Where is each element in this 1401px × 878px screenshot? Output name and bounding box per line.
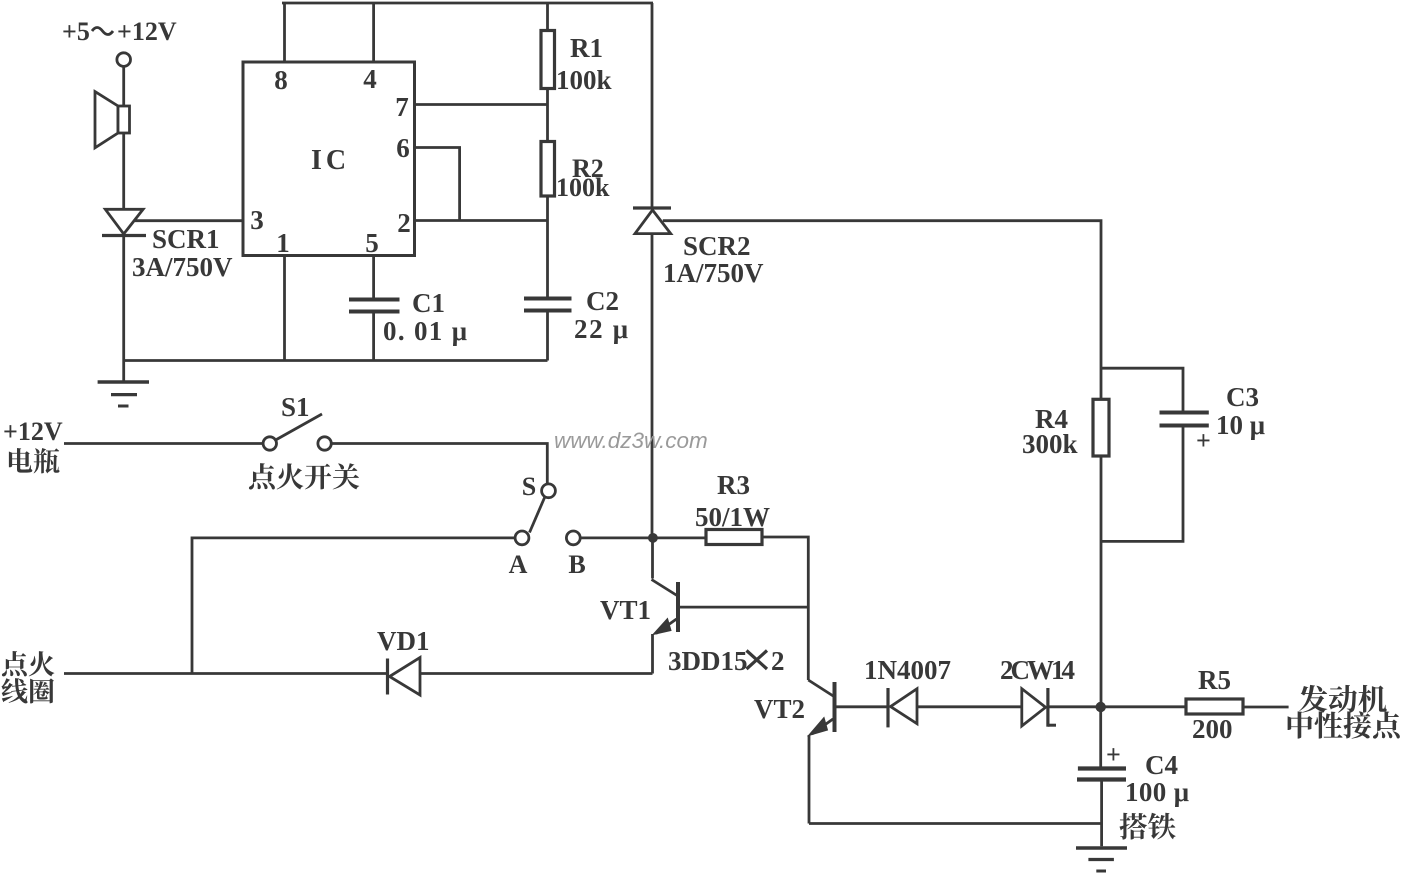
label C4 value [1125,777,1189,807]
wire R5 to engine terminal [1243,706,1289,709]
svg-text:S: S [522,472,536,501]
svg-text:5: 5 [365,228,379,258]
wire C3 to R4 bottom [1101,427,1183,541]
svg-text:7: 7 [395,92,409,122]
svg-text:+: + [1106,740,1121,769]
wire C1 to bottom bus [372,313,375,361]
wire B to R3 [580,537,706,540]
label engine 发动机 [1299,685,1386,713]
svg-text:+5: +5 [62,17,90,46]
svg-text:R3: R3 [717,470,750,500]
svg-text:2: 2 [771,646,785,676]
svg-text:8: 8 [274,65,288,95]
svg-text:VD1: VD1 [377,626,430,656]
label SCR1 [152,224,220,254]
wire R3 to VT1 base column [762,537,808,680]
wire IC pin6 loop [415,148,460,221]
op-amp U1 IC box [243,62,415,256]
label R1 [570,33,603,63]
svg-text:4: 4 [363,64,377,94]
label C1 value [383,316,467,346]
wire SCR2 to node B junction [651,234,654,538]
svg-text:1: 1 [276,228,290,258]
svg-text:3DD15: 3DD15 [668,646,748,676]
svg-text:1N4007: 1N4007 [864,655,951,685]
svg-text:B: B [568,550,585,579]
wire IC pin1 down [283,256,286,361]
pin 3 [250,205,264,235]
resistor R1 [541,31,555,89]
svg-text:SCR2: SCR2 [683,231,751,261]
label R3 [717,470,750,500]
label R4 value 300k [1022,429,1078,459]
terminal +5~+12V [117,53,131,67]
pin 8 [274,65,288,95]
svg-text:300k: 300k [1022,429,1078,459]
wire IC pin4 to top bus [372,3,375,63]
wire top bus to R1 [546,3,549,31]
svg-text:6: 6 [396,133,410,163]
svg-text:3A/750V: 3A/750V [132,252,233,282]
wire bottom bus [124,359,548,362]
diode VD1 [388,658,421,696]
label SCR2 value 1A/750V [663,258,764,288]
capacitor C1 [349,300,400,312]
svg-text:2: 2 [397,208,411,238]
transistor VT2 [808,680,834,824]
wire VT2 base to 1N4007 [835,705,889,708]
wire C4 to ground [1100,781,1103,846]
svg-text:www.dz3w.com: www.dz3w.com [554,428,708,453]
wire R4 to junction [1100,456,1103,702]
svg-text:50/1W: 50/1W [695,502,770,532]
svg-text:100k: 100k [556,173,610,202]
pin 4 [363,64,377,94]
svg-text:VT1: VT1 [600,595,651,625]
svg-text:2CW14: 2CW14 [1000,655,1075,685]
wire R4 top to C3 [1101,368,1183,411]
svg-text:100 μ: 100 μ [1125,777,1189,807]
label C3 plus [1196,426,1211,455]
wire top bus [282,2,653,5]
label B [568,550,585,579]
label ignition coil 线圈 [2,678,54,703]
label C4 plus [1106,740,1121,769]
wire IC pin3 to SCR1 [135,219,243,222]
svg-text:VT2: VT2 [754,694,805,724]
speaker LS [95,92,130,148]
wire terminal to speaker [122,67,125,210]
pin 2 [397,208,411,238]
wire 1N4007 to 2CW14 [917,705,1022,708]
node pin7-R1 junction wire [415,103,548,106]
svg-text:SCR1: SCR1 [152,224,220,254]
svg-text:22 μ: 22 μ [574,314,628,344]
label R1 value 100k [556,65,612,95]
label S1 [281,392,310,422]
label C3 value [1216,410,1265,440]
capacitor C4 [1077,769,1126,780]
watermark www.dz3w.com [554,428,708,453]
svg-text:R1: R1 [570,33,603,63]
svg-text:+12V: +12V [3,417,63,446]
label +12V battery [3,417,63,446]
label C2 [586,286,619,316]
wire SCR1 to ground bus [122,236,125,383]
svg-text:100k: 100k [556,65,612,95]
label SCR1 value 3A/750V [132,252,233,282]
svg-text:IC: IC [311,145,350,176]
svg-text:+12V: +12V [117,17,177,46]
zener diode 2CW14 [1022,688,1056,727]
wire C2 to bottom bus [546,312,549,361]
label R2 [572,154,604,183]
svg-text:S1: S1 [281,392,310,422]
label VD1 [377,626,430,656]
wire A to ignition coil line [192,538,515,674]
ground left [98,382,149,406]
label +5~+12V supply [62,17,177,46]
label 1N4007 [864,655,951,685]
label 2CW14 [1000,655,1075,685]
pin 1 [276,228,290,258]
svg-text:C1: C1 [412,288,445,318]
wire junction to C4 [1099,707,1102,767]
label IC [311,145,350,176]
switch contact S [530,484,556,533]
label R5 [1198,665,1231,695]
switch contact A [515,531,529,545]
wire IC pin5 to C1 [372,256,375,299]
capacitor C3 [1160,413,1209,426]
switch contact B [566,531,580,545]
wire VT2 emitter to C4 ground [809,822,1102,825]
svg-text:C4: C4 [1145,750,1178,780]
pin 7 [395,92,409,122]
label 3DD15x2 [668,646,785,676]
label C2 value [574,314,628,344]
pin 6 [396,133,410,163]
wire S1 to S contact [332,444,548,485]
node C4 junction dot [1096,702,1106,712]
wire R1 to R2 [546,88,549,142]
label S [522,472,536,501]
capacitor C2 [524,299,572,311]
label R3 value 50/1W [695,502,770,532]
svg-text:C3: C3 [1226,382,1259,412]
svg-text:R5: R5 [1198,665,1231,695]
ground right [1076,848,1127,871]
wire battery to S1 [64,442,263,445]
wire IC pin2 to R2 bottom [415,219,548,222]
diode VD 1N4007 [888,688,917,727]
label VT1 [600,595,651,625]
wire R2 to C2 [546,196,549,297]
label R5 value 200 [1192,714,1233,744]
pin 5 [365,228,379,258]
resistor R5 [1186,699,1243,714]
resistor R3 [706,530,762,545]
label R4 [1035,404,1068,434]
svg-text:3: 3 [250,205,264,235]
wire IC pin8 to top bus [283,3,286,63]
label VT2 [754,694,805,724]
svg-text:C2: C2 [586,286,619,316]
svg-text:1A/750V: 1A/750V [663,258,764,288]
svg-text:A: A [509,550,528,579]
label neutral contact 中性接点 [1288,711,1400,738]
label A [509,550,528,579]
label chassis ground 搭铁 [1119,813,1175,840]
label C1 [412,288,445,318]
wire ignition coil line [64,672,388,675]
node B junction dot [648,533,658,543]
transistor VT1 [652,538,809,674]
switch S1 [263,414,331,450]
wire SCR2 cathode to R4 [663,221,1101,400]
label R2 value 100k [556,173,610,202]
svg-text:0. 01 μ: 0. 01 μ [383,316,467,346]
wire VD1 to VT1 emitter [420,672,653,675]
svg-text:+: + [1196,426,1211,455]
label battery 电瓶 [9,448,60,473]
label SCR2 [683,231,751,261]
resistor R2 [541,142,555,197]
label C4 [1145,750,1178,780]
wire 2CW14 to R5 [1048,705,1186,708]
thyristor SCR2 [633,208,671,234]
label C3 [1226,382,1259,412]
svg-text:10 μ: 10 μ [1216,410,1265,440]
label ignition switch 点火开关 [249,463,359,489]
resistor R4 [1093,399,1109,456]
wire top bus to SCR2 [651,3,654,208]
thyristor SCR1 [102,209,146,235]
svg-text:200: 200 [1192,714,1233,744]
label ignition coil 点火 [2,651,55,676]
